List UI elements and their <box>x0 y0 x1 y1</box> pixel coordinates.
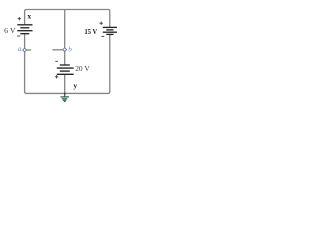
battery V1 plus sign <box>18 17 21 20</box>
ground symbol <box>61 93 69 102</box>
battery V2 plus sign <box>100 22 103 25</box>
ground junction dot <box>64 93 66 95</box>
wire stub of terminal a <box>26 49 31 51</box>
wire middle branch lower (node b to battery, battery to bottom wire) <box>64 51 66 94</box>
wire top loop (left stub, top wire, right stub) <box>25 10 110 28</box>
svg-text:20 V: 20 V <box>75 64 90 73</box>
node b terminal diamond <box>63 48 67 52</box>
svg-text:15 V: 15 V <box>85 27 98 36</box>
battery V2 minus sign <box>101 35 104 37</box>
svg-text:y: y <box>73 81 77 90</box>
svg-text:a: a <box>18 45 22 53</box>
battery V1 minus sign <box>17 35 20 37</box>
svg-text:b: b <box>68 45 72 53</box>
wire middle branch upper (top wire to node b) <box>64 10 66 48</box>
wire stub of terminal b <box>52 49 63 51</box>
node a terminal diamond <box>23 48 27 52</box>
battery V3 minus sign <box>55 60 58 62</box>
svg-text:6 V: 6 V <box>4 26 16 35</box>
battery V1 6V plates <box>17 25 32 34</box>
wire bottom loop (left branch below battery, bottom wire, right branch below battery) <box>25 34 110 93</box>
battery V2 15V plates <box>103 27 117 34</box>
battery V3 20V plates <box>57 65 74 74</box>
battery V3 plus sign <box>55 75 58 78</box>
svg-text:x: x <box>27 12 31 21</box>
